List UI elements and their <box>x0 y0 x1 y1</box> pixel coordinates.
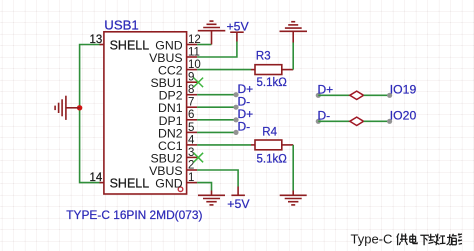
junction dot SHELL net <box>77 105 82 110</box>
endpoint dot D+ left <box>316 93 321 98</box>
pin numbers 12..1 <box>188 34 201 184</box>
wire pin12 GND to top ground <box>197 44 211 46</box>
no-connect X pin 9 SBU1 <box>194 78 204 88</box>
wire pin1 GND to bottom ground <box>197 183 211 191</box>
svg-text:5.1kΩ: 5.1kΩ <box>257 77 288 89</box>
power flag +5V bottom <box>231 187 245 196</box>
wire pin7 DN1 net D- <box>197 106 236 108</box>
svg-text:D+: D+ <box>318 83 334 97</box>
svg-text:9: 9 <box>188 72 194 84</box>
svg-text:Type-C: Type-C <box>351 232 393 247</box>
svg-text:IO19: IO19 <box>390 83 417 97</box>
svg-text:6: 6 <box>188 109 194 121</box>
power flag +5V top <box>230 32 244 41</box>
resistor R3 <box>251 65 293 75</box>
wire pin11 VBUS to +5V top <box>197 42 237 58</box>
svg-text:IO20: IO20 <box>390 109 417 123</box>
caption Type-C power/download function <box>351 232 463 247</box>
svg-text:D-: D- <box>238 120 251 134</box>
chassis ground (earth) symbol, rotated left <box>55 96 80 120</box>
wire pin4 CC1 to R4 <box>197 144 251 146</box>
ground symbol bottom right (R4) <box>280 191 307 205</box>
pin names GND..GND right column <box>149 39 183 191</box>
no-connect X pin 3 SBU2 <box>194 153 204 163</box>
net tie row D- to IO20 <box>316 109 417 126</box>
svg-text:8: 8 <box>188 84 194 96</box>
endpoint dot IO19 <box>387 93 392 98</box>
ground symbol bottom left (pin 1) <box>198 191 225 205</box>
svg-text:+5V: +5V <box>227 19 250 33</box>
pin 13 SHELL stub <box>100 44 104 46</box>
diamond jumper row1 <box>350 91 364 99</box>
wire pin8 DP2 net D+ <box>197 94 236 96</box>
wire D- to diamond <box>318 120 350 122</box>
svg-text:5: 5 <box>188 122 194 134</box>
endpoint dot pin7 <box>233 105 238 110</box>
CJK char DIAN (electric) <box>410 234 417 244</box>
svg-text:SHELL: SHELL <box>110 177 150 191</box>
small circle graphic inside connector <box>178 187 183 192</box>
wire R3 to top right ground <box>292 43 294 70</box>
endpoint dot pin5 <box>233 130 238 135</box>
endpoint dot pin8 <box>233 92 238 97</box>
svg-text:7: 7 <box>188 97 194 109</box>
right side pin stubs pins 12..1 <box>187 45 198 183</box>
wire pin6 DP1 net D+ <box>197 119 236 121</box>
CJK char GONG2 (function) <box>440 234 452 245</box>
wire SHELL net: pin13 to pin14 left loop <box>80 45 101 183</box>
wire diamond to IO20 <box>364 120 390 122</box>
endpoint dot pin6 <box>233 117 238 122</box>
svg-text:1: 1 <box>188 172 194 184</box>
net tie row D+ to IO19 <box>316 83 417 100</box>
endpoint dot IO20 <box>387 119 392 124</box>
svg-text:SHELL: SHELL <box>110 39 150 53</box>
svg-text:13: 13 <box>90 34 103 46</box>
svg-text:14: 14 <box>90 172 103 184</box>
svg-text:5.1kΩ: 5.1kΩ <box>257 153 288 165</box>
pin 14 SHELL stub <box>100 182 104 184</box>
endpoint dot D- left <box>316 119 321 124</box>
svg-text:GND: GND <box>155 177 182 191</box>
wire D+ to diamond <box>318 94 350 96</box>
ground symbol top right (R3) flipped up <box>280 22 308 43</box>
svg-text:3: 3 <box>188 147 194 159</box>
svg-text:4: 4 <box>188 134 195 146</box>
svg-text:R3: R3 <box>256 51 271 63</box>
wire pin10 CC2 to R3 <box>197 69 251 71</box>
ground symbol top left (pin 12) flipped up <box>198 21 226 44</box>
CJK char XIA (down) <box>420 235 429 245</box>
svg-text:R4: R4 <box>262 126 277 138</box>
resistor R4 <box>251 140 293 150</box>
wire pin5 DN2 net D- <box>197 131 236 133</box>
connector USB1 body <box>104 32 187 194</box>
wire pin2 VBUS to +5V bottom <box>197 170 238 187</box>
CJK char ZAI (load) <box>428 234 440 246</box>
svg-text:+5V: +5V <box>227 197 250 211</box>
diamond jumper row2 <box>350 117 364 125</box>
svg-text:USB1: USB1 <box>104 18 138 33</box>
svg-text:TYPE-C 16PIN 2MD(073): TYPE-C 16PIN 2MD(073) <box>66 208 202 222</box>
CJK char GONG (supply) <box>397 234 408 246</box>
svg-text:2: 2 <box>188 159 194 171</box>
wire R4 to bottom right ground <box>292 145 294 191</box>
svg-text:D-: D- <box>318 109 331 123</box>
wire diamond to IO19 <box>364 94 390 96</box>
CJK char NENG (ability) <box>452 233 462 244</box>
